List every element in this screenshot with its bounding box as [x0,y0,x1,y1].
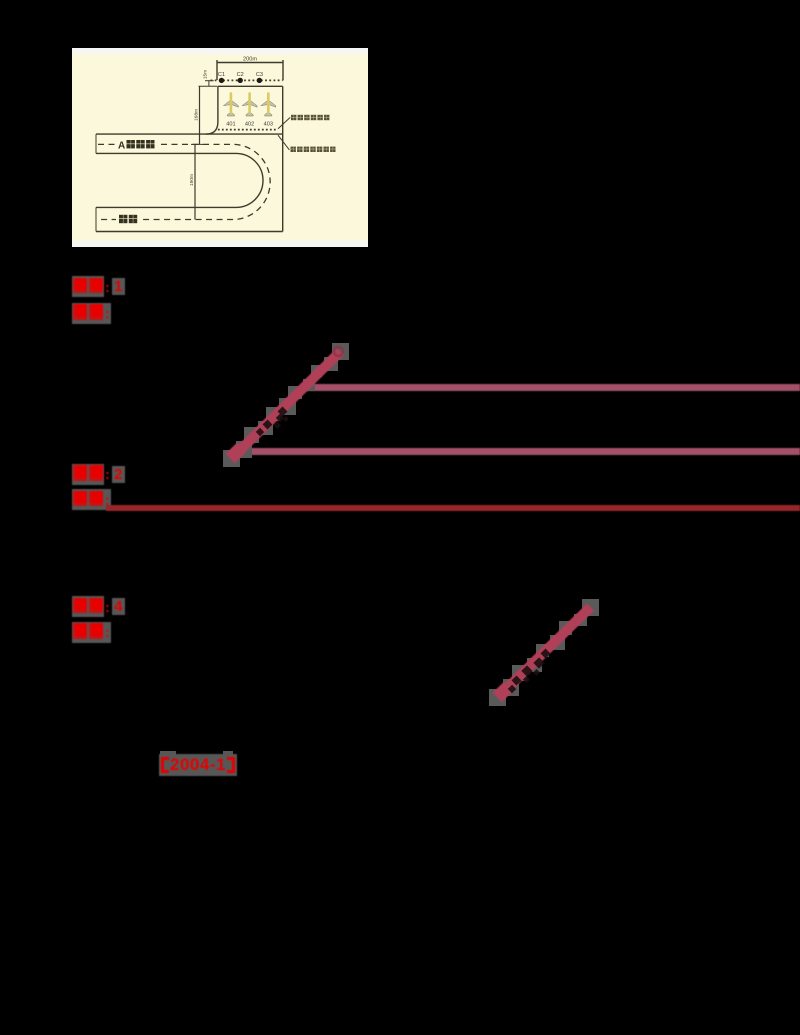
svg-text:402: 402 [245,122,254,128]
svg-text:403: 403 [264,122,273,128]
svg-text:15m: 15m [203,70,209,79]
svg-text:168m: 168m [194,109,200,121]
svg-text:401: 401 [226,122,235,128]
svg-text:200m: 200m [243,57,257,63]
svg-text:190m: 190m [189,174,195,186]
svg-text:A: A [118,141,125,152]
svg-text:C3: C3 [256,72,263,78]
svg-text:C1: C1 [218,72,225,78]
svg-text:C2: C2 [237,72,244,78]
